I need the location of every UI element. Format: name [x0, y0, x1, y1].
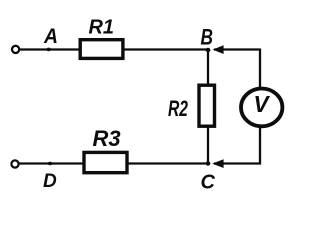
voltmeter V [241, 89, 282, 127]
arrow into node C [212, 159, 223, 168]
terminal D [11, 160, 18, 167]
wire voltmeter top loop: B arrow to corner [214, 48, 260, 50]
wire R3 to node C [129, 162, 209, 164]
wire R1 to node B [125, 48, 209, 50]
svg-text:V: V [254, 91, 271, 117]
svg-text:R2: R2 [168, 96, 189, 121]
wire voltmeter bottom to corner [259, 126, 261, 165]
resistor R2 [199, 85, 215, 126]
arrow into node B [213, 45, 224, 54]
wire D to R3 [19, 162, 83, 164]
node B junction dot [206, 48, 211, 52]
node C junction dot [206, 161, 211, 165]
wire A to R1 [20, 48, 80, 50]
svg-text:A: A [43, 25, 58, 48]
svg-text:B: B [201, 25, 214, 50]
junction tick on D wire [48, 162, 52, 166]
resistor R3 [84, 152, 127, 172]
wire B to R2 [207, 50, 209, 86]
wire R2 to node C [207, 127, 209, 164]
terminal A [12, 46, 19, 53]
svg-text:C: C [201, 171, 216, 193]
wire corner down to voltmeter top [259, 49, 261, 88]
svg-text:D: D [43, 171, 57, 192]
svg-text:R3: R3 [93, 126, 121, 151]
junction tick on A wire [47, 48, 51, 52]
resistor R1 [80, 40, 123, 59]
svg-text:R1: R1 [89, 17, 115, 39]
wire corner to C arrow [214, 162, 261, 164]
